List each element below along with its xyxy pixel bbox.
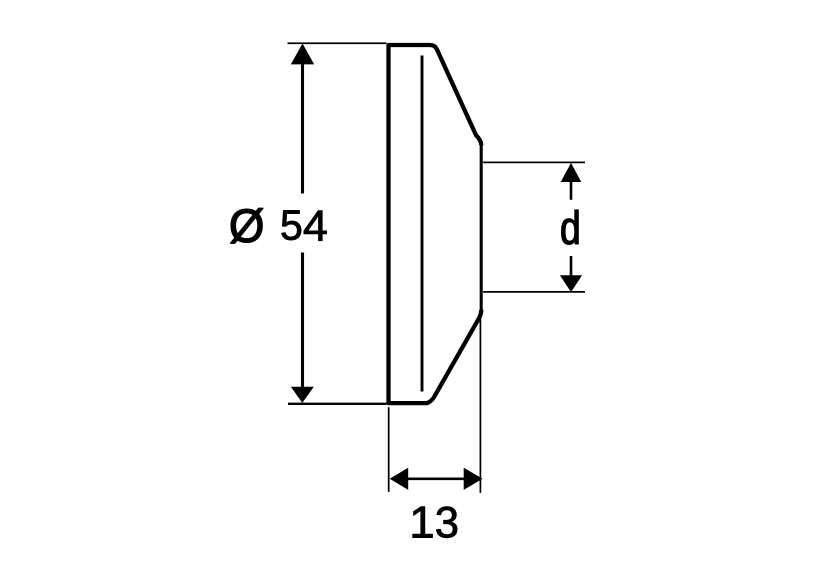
arrowhead Ø54 down <box>291 387 314 403</box>
dimension line Ø54 upper segment <box>301 59 304 194</box>
label 13 <box>413 507 457 538</box>
arrowhead Ø54 up <box>291 44 314 65</box>
dimension line Ø54 lower segment <box>301 253 304 389</box>
arrowhead 13 left <box>390 468 409 490</box>
label Ø 54 <box>231 208 327 243</box>
dimension line d lower segment <box>570 256 573 277</box>
extension line bottom (d) <box>483 291 585 293</box>
extension line top (d) <box>483 161 585 163</box>
extension line left (13) <box>388 407 390 492</box>
part right edge (small end) <box>480 144 483 311</box>
arrowhead 13 right <box>464 468 483 490</box>
arrowhead d up <box>561 163 582 182</box>
part outline <box>389 45 482 403</box>
part face edge line <box>421 56 424 392</box>
arrowhead d down <box>560 275 582 292</box>
extension line bottom (Ø54) <box>288 403 387 405</box>
dimension line d upper segment <box>570 179 573 200</box>
extension line right (13) <box>479 311 481 493</box>
extension line top (Ø54) <box>288 42 387 44</box>
dimension line 13 <box>407 477 466 480</box>
label d <box>562 210 579 244</box>
